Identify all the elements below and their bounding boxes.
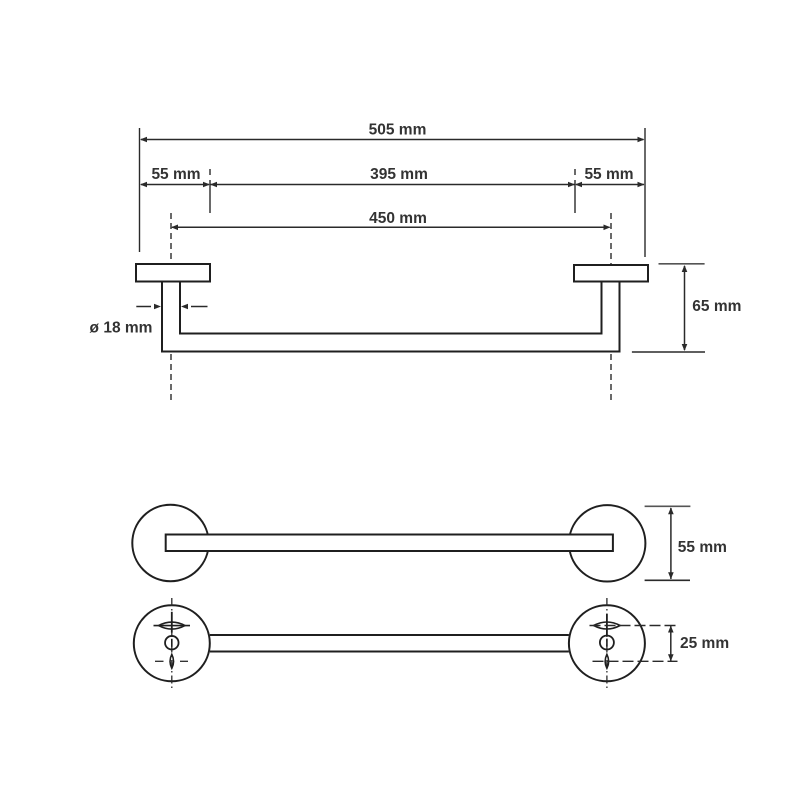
65mm dimension line vertical [684, 266, 686, 350]
right screw slot mark [606, 639, 608, 647]
centerline dashed right post (below bar) [610, 354, 612, 400]
right screw hole circle [600, 636, 614, 650]
centerline dashed left post (below bar) [170, 354, 172, 400]
centerline dashed left post (above plate) [170, 213, 172, 263]
svg-text:55 mm: 55 mm [151, 166, 200, 183]
left screw hole circle [165, 636, 179, 650]
left keyhole slot bottom (vertical lens) [170, 654, 174, 668]
svg-text:55 mm: 55 mm [678, 539, 727, 556]
centerline dash-dot right circle [606, 598, 608, 690]
svg-text:55 mm: 55 mm [584, 166, 633, 183]
left rosette circle (bottom view) [134, 605, 210, 681]
svg-text:505 mm: 505 mm [369, 122, 427, 139]
25mm dashed reference top [590, 625, 678, 627]
25mm dashed reference bottom [593, 660, 678, 662]
55mm bottom reference line [645, 579, 690, 581]
centerline dash-dot left circle [171, 598, 173, 690]
tick right (395/55 boundary) [574, 169, 576, 213]
left screw slot mark [171, 639, 173, 647]
bar bottom line (bottom view) [210, 651, 569, 653]
diameter arrow left (pointing right at post) [136, 306, 151, 308]
bar front view [166, 535, 613, 552]
dimension line 395 mm [210, 184, 575, 186]
left rosette circle [132, 505, 208, 581]
svg-text:65 mm: 65 mm [692, 298, 741, 315]
bar outer contour (left post outer + bar bottom + right post outer) [162, 282, 620, 352]
extension line right (505mm) [644, 128, 646, 257]
centerline dashed right post (above plate) [610, 213, 612, 264]
left bottom slot crosshair [155, 660, 164, 662]
55mm dimension line vertical [670, 508, 672, 579]
dimension line 450 mm [172, 226, 610, 228]
wall plate left [136, 264, 210, 282]
extension line left (505mm) [139, 128, 141, 252]
dimension line 55 mm left [141, 184, 209, 186]
right rosette circle [569, 505, 645, 581]
svg-text:450 mm: 450 mm [369, 210, 427, 227]
svg-text:ø 18 mm: ø 18 mm [90, 320, 153, 337]
bar top line (bottom view) [210, 634, 569, 636]
tick left (55/395 boundary) [209, 169, 211, 213]
dimension line 505 mm [141, 139, 644, 141]
bar inner contour (left post inner + bar top + right post inner) [180, 282, 602, 334]
svg-text:25 mm: 25 mm [680, 635, 729, 652]
diameter arrow right (pointing left at post) [191, 306, 208, 308]
right rosette circle (bottom view) [569, 605, 645, 681]
55mm top reference line [645, 505, 691, 507]
25mm dimension line vertical [670, 626, 672, 661]
65mm bottom reference line [632, 351, 705, 353]
right keyhole slot top (horizontal lens) [594, 614, 620, 635]
right keyhole slot bottom (vertical lens) [605, 654, 609, 668]
svg-text:395 mm: 395 mm [370, 166, 428, 183]
left keyhole slot top (horizontal lens) [154, 612, 191, 633]
wall plate right [574, 265, 648, 282]
dimension line 55 mm right [576, 184, 644, 186]
65mm top reference line [659, 263, 705, 265]
